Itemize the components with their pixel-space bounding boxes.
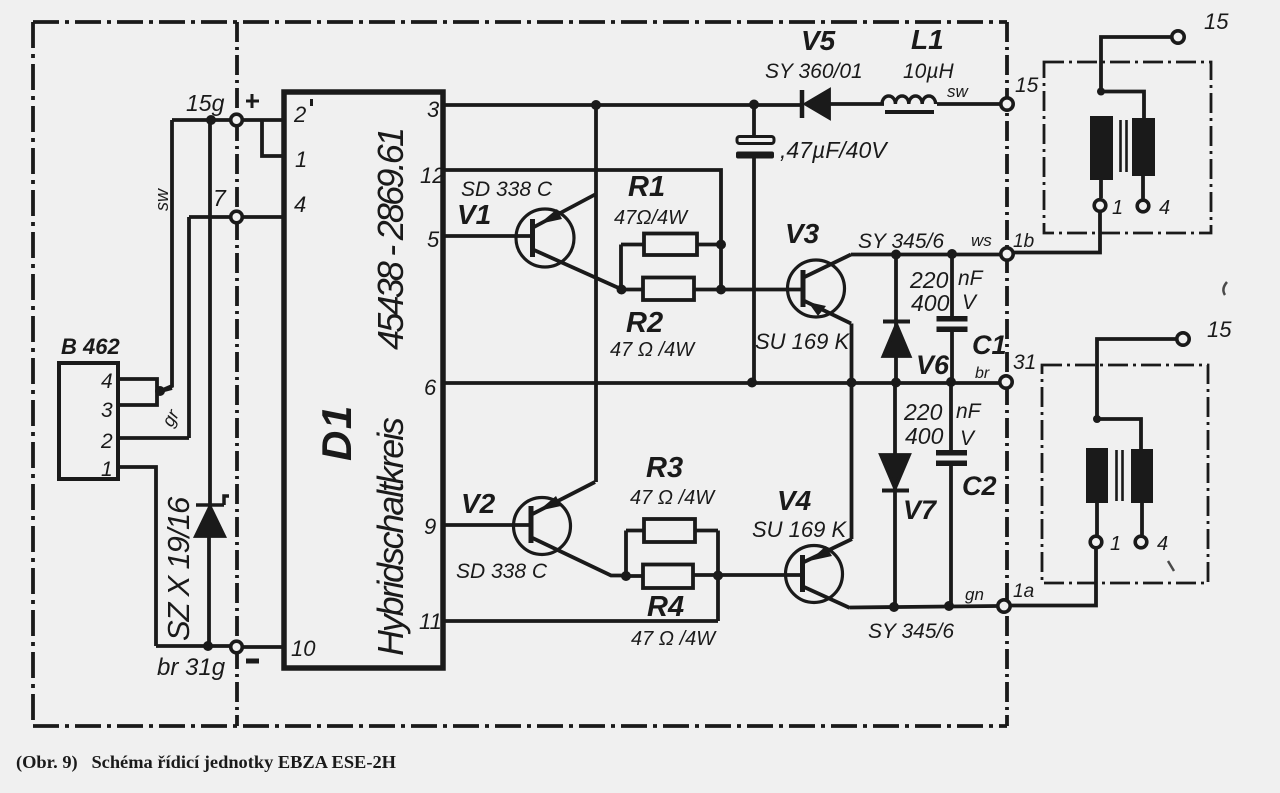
label C2 value nF (956, 400, 982, 423)
diode V7 lead (893, 383, 897, 607)
junction sw line (206, 115, 216, 125)
svg-text:R1: R1 (628, 171, 665, 203)
svg-text:45438 - 2869.61: 45438 - 2869.61 (370, 130, 411, 350)
junction V7 bottom (889, 602, 899, 612)
junction V6 bottom (891, 378, 901, 388)
lower coil primary lead down (1095, 503, 1099, 535)
label 15 upper right (1204, 9, 1229, 34)
lower coil pin 1 terminal (1090, 536, 1102, 548)
label R3 value 47ohm/4W (630, 487, 716, 509)
upper coil terminal 15 (1172, 31, 1184, 43)
svg-text:SY 360/01: SY 360/01 (765, 60, 863, 83)
label sw rotated (152, 188, 172, 211)
upper coil core lines (1121, 120, 1127, 172)
label V6 (916, 350, 950, 380)
label C1 value nF (958, 267, 984, 290)
svg-text:SZ X 19/16: SZ X 19/16 (161, 496, 196, 641)
wire sw vertical (158, 120, 172, 392)
resistor R1 left lead (621, 243, 644, 247)
lower coil secondary feed (1097, 419, 1141, 450)
svg-text:C2: C2 (962, 471, 997, 501)
svg-text:4: 4 (101, 370, 113, 393)
svg-text:R2: R2 (626, 307, 663, 339)
B462 pin 2 label (100, 430, 113, 453)
junction tie (155, 386, 165, 396)
label gr rotated (158, 405, 184, 429)
resistor R4 body (643, 565, 693, 589)
capacitor 47uF bottom lead (752, 158, 756, 383)
label gn (965, 585, 984, 604)
svg-text:V7: V7 (903, 495, 938, 525)
label R4 value 47ohm/4W (631, 628, 717, 650)
B462 pin 3 label (101, 399, 113, 422)
capacitor C1 top lead (950, 254, 954, 317)
svg-text:400: 400 (905, 423, 944, 449)
connector B462 body (59, 363, 118, 479)
junction R1 right (716, 240, 726, 250)
label V3 (785, 218, 820, 249)
svg-text:4: 4 (1159, 197, 1170, 219)
label sw at node 15 (947, 82, 970, 101)
lower ignition coil dashed box (1042, 365, 1208, 583)
junction collector line (591, 100, 601, 110)
wire B462 pin 2 (118, 436, 189, 440)
transistor V3 emitter arrow (808, 302, 826, 316)
node 15 (1001, 98, 1013, 110)
label V2 (461, 488, 496, 519)
diode V6 lead (894, 255, 898, 384)
emitter collector tie V3 V4 (850, 324, 854, 540)
svg-text:2: 2 (100, 430, 113, 453)
label SZ X 19/16 rotated (161, 496, 196, 641)
wire coil to node 15 (937, 102, 1000, 106)
label 47uF/40V (780, 137, 889, 163)
node 1a (998, 600, 1010, 612)
D1 pin 3 label (427, 97, 440, 122)
wire terminal 7 horizontal (189, 215, 283, 219)
label 1b (1013, 231, 1034, 252)
resistor R4 right lead and wire to V4 base (693, 573, 802, 577)
node 1b (1001, 248, 1013, 260)
capacitor 47uF top lead (752, 104, 756, 137)
node 7 (231, 211, 243, 223)
B462 pin 1 label (101, 458, 113, 481)
label C2 value V (960, 427, 976, 450)
upper ignition coil dashed box (1044, 62, 1211, 233)
svg-text:400: 400 (911, 290, 950, 316)
junction R4 right (713, 571, 723, 581)
diode V5 triangle (806, 91, 829, 118)
junction C2 bottom (944, 601, 954, 611)
svg-text:15: 15 (1204, 9, 1229, 34)
transistor V2 base bar (529, 506, 534, 543)
transistor V1 collector arrow (539, 209, 562, 224)
svg-text:br: br (975, 365, 990, 382)
outer dashed enclosure right border (1005, 22, 1009, 726)
inductor L1 coil (882, 96, 936, 104)
label 45438-2869.61 rotated (370, 130, 411, 350)
label pin 4 lower (1157, 533, 1168, 555)
svg-text:SY 345/6: SY 345/6 (858, 230, 944, 253)
label 31 (1013, 351, 1036, 374)
inductor L1 underline (885, 110, 934, 114)
label V4 (777, 485, 812, 516)
junction C1 top (947, 249, 957, 259)
D1 pin 11 label (419, 609, 442, 634)
diode V7 cathode bar (882, 489, 909, 493)
wire diode to coil (829, 102, 884, 106)
svg-text:6: 6 (424, 375, 437, 400)
transistor V4 emitter diagonal (804, 587, 850, 608)
transistor V4 collector arrow (809, 546, 832, 561)
svg-text:47 Ω /4W: 47 Ω /4W (610, 339, 696, 361)
wire pin 11 (443, 619, 718, 623)
label R3 (646, 452, 683, 484)
upper coil pin 1 terminal (1094, 200, 1106, 212)
upper coil feed wire (1101, 37, 1171, 91)
label R1 (628, 171, 665, 203)
transistor V4 collector diagonal (804, 539, 852, 562)
resistor R4 left lead (626, 574, 643, 578)
upper coil primary lead down (1099, 180, 1103, 198)
minus polarity mark (246, 659, 259, 664)
svg-text:nF: nF (956, 400, 982, 423)
transistor V1 collector diagonal (534, 194, 596, 227)
svg-text:15: 15 (1015, 74, 1039, 97)
transistor V1 base bar (530, 219, 535, 257)
label ws (971, 231, 992, 250)
svg-text:4: 4 (1157, 533, 1168, 555)
node 31g (231, 641, 243, 653)
wire pin 9 to V2 base (443, 523, 530, 527)
svg-text:nF: nF (958, 267, 984, 290)
svg-text:4: 4 (294, 192, 306, 217)
upper coil secondary feed (1101, 92, 1144, 119)
wire step to D1 pin 1 (262, 120, 283, 156)
lower coil secondary lead down (1140, 503, 1144, 535)
R3 R4 right connector to pin 11 (716, 531, 720, 622)
svg-text:V6: V6 (916, 350, 950, 380)
label R2 value 47ohm/4W (610, 339, 696, 361)
svg-text:15: 15 (1207, 317, 1232, 342)
svg-text:47Ω/4W: 47Ω/4W (614, 207, 689, 229)
wire pin1 to node 1b (1014, 212, 1100, 253)
capacitor C2 bottom lead (949, 466, 953, 606)
label br (975, 365, 990, 382)
svg-text:9: 9 (424, 514, 436, 539)
outer dashed enclosure left border (31, 22, 35, 726)
label SU 169 K for V3 (755, 329, 850, 354)
label pin 4 upper (1159, 197, 1170, 219)
caption Obr. 9 (16, 752, 396, 773)
svg-text:3: 3 (101, 399, 113, 422)
node 31 (1000, 376, 1012, 388)
transistor V3 base bar (801, 270, 806, 307)
wire ws rail SY345/6 (851, 253, 1000, 257)
svg-text:2: 2 (293, 102, 306, 127)
svg-text:1: 1 (1112, 197, 1123, 219)
svg-text:220: 220 (903, 399, 943, 425)
svg-text:1b: 1b (1013, 231, 1034, 252)
label 15 lower right (1207, 317, 1232, 342)
zener diode SZ X 19/16 cathode bar (196, 496, 229, 505)
svg-text:(Obr. 9) Schéma řídicí jedno: (Obr. 9) Schéma řídicí jednotky EBZA ESE… (16, 752, 396, 773)
wire tie to sw line (157, 388, 172, 392)
transistor V1 emitter diagonal (534, 250, 622, 290)
lower coil feed wire (1097, 339, 1176, 419)
junction R2 right (716, 285, 726, 295)
svg-text:V4: V4 (777, 485, 812, 516)
junction V6 top (891, 250, 901, 260)
svg-text:1a: 1a (1013, 581, 1034, 602)
stray scan mark upper right (1223, 282, 1227, 295)
label B 462 (61, 334, 120, 359)
diode V6 cathode bar (883, 320, 910, 324)
lower coil pin 4 terminal (1135, 536, 1147, 548)
label C1 value V (962, 291, 978, 314)
svg-text:15g: 15g (186, 90, 225, 116)
svg-text:SU 169 K: SU 169 K (752, 517, 847, 542)
transistor V2 collector arrow (538, 496, 561, 511)
label D1 rotated (313, 404, 360, 461)
label pin 1 lower (1110, 533, 1121, 555)
label R2 (626, 307, 663, 339)
svg-text:10µH: 10µH (903, 60, 954, 83)
svg-text:sw: sw (152, 188, 172, 211)
lower coil junction (1093, 415, 1101, 423)
outer dashed enclosure bottom border (33, 724, 1007, 728)
transistor V4 base bar (800, 555, 805, 592)
label C2 value 400 (905, 423, 944, 449)
svg-text:10: 10 (291, 636, 316, 661)
transistor V3 circle (788, 260, 845, 317)
svg-text:V3: V3 (785, 218, 820, 249)
wire pin 3 rail (443, 103, 801, 107)
svg-text:47 Ω /4W: 47 Ω /4W (630, 487, 716, 509)
D1 pin 1 label (295, 147, 307, 172)
transistor V3 collector diagonal (805, 255, 852, 278)
stray scan mark lower right (1168, 561, 1174, 571)
svg-text:11: 11 (419, 609, 442, 634)
label SU 169 K for V4 (752, 517, 847, 542)
svg-text:,47µF/40V: ,47µF/40V (780, 137, 889, 163)
resistor R3 body (644, 519, 695, 542)
svg-text:31: 31 (1013, 351, 1036, 374)
bottom wire br 31g (156, 646, 283, 647)
D1 pin 4 label (294, 192, 306, 217)
wire pin 5 to V1 base (443, 234, 531, 238)
junction cap47 bottom (747, 378, 757, 388)
svg-text:SD 338 C: SD 338 C (456, 560, 548, 583)
transistor V1 circle (516, 209, 574, 267)
svg-text:br 31g: br 31g (157, 654, 226, 681)
label SY 360/01 (765, 60, 863, 83)
wire zener branch vertical lower (207, 536, 211, 646)
svg-text:SU 169 K: SU 169 K (755, 329, 850, 354)
label R1 value 47ohm/4W (614, 207, 689, 229)
junction tie V3V4 (847, 378, 857, 388)
capacitor C2 plates (936, 450, 967, 466)
label C1 (972, 330, 1007, 360)
svg-text:R3: R3 (646, 452, 683, 484)
label R4 (647, 591, 684, 623)
svg-text:12: 12 (420, 163, 444, 188)
R1 R2 left connector (619, 245, 623, 291)
lower coil secondary winding (1131, 449, 1153, 503)
label pin 1 upper (1112, 197, 1123, 219)
label SD 338 C for V2 (456, 560, 548, 583)
svg-text:V2: V2 (461, 488, 496, 519)
label Hybridschaltkreis rotated (370, 417, 411, 656)
svg-text:3: 3 (427, 97, 440, 122)
svg-text:1: 1 (101, 458, 113, 481)
label 10uH (903, 60, 954, 83)
transistor V2 emitter diagonal (533, 538, 627, 576)
D1 pin 6 label (424, 375, 437, 400)
label SD 338 C for V1 (461, 178, 553, 201)
D1 pin 10 label (291, 636, 316, 661)
svg-text:L1: L1 (911, 24, 944, 55)
resistor R1 right lead (697, 243, 721, 247)
upper coil secondary lead down (1141, 176, 1145, 199)
lower coil primary winding (1086, 448, 1108, 503)
svg-text:D1: D1 (313, 404, 360, 461)
svg-text:V1: V1 (457, 199, 491, 230)
svg-text:Hybridschaltkreis: Hybridschaltkreis (370, 417, 411, 656)
wire B462 pin 1 down to bottom wire (118, 467, 156, 646)
zener diode SZ X 19/16 triangle (196, 507, 224, 536)
node 15g (231, 114, 243, 126)
junction emitter R2 left (617, 285, 627, 295)
label br 31g (157, 654, 226, 681)
transistor V3 emitter diagonal (805, 301, 852, 324)
svg-text:sw: sw (947, 82, 970, 101)
svg-text:ws: ws (971, 231, 992, 250)
svg-text:V: V (962, 291, 978, 314)
D1 pin 12 label (420, 163, 444, 188)
label V5 (801, 25, 836, 56)
svg-text:SD 338 C: SD 338 C (461, 178, 553, 201)
label SY 345/6 upper (858, 230, 944, 253)
diode V5 cathode bar (800, 90, 805, 118)
resistor R2 body (643, 278, 694, 301)
label L1 (911, 24, 944, 55)
capacitor C1 plates (937, 316, 968, 332)
junction emitter R4 left (621, 571, 631, 581)
wire B462 pins 4-3 tie (118, 379, 157, 405)
wire zener branch vertical upper (208, 120, 212, 504)
svg-text:1: 1 (1110, 533, 1121, 555)
transistor V2 collector diagonal (533, 482, 596, 514)
wire node 15g to D1 pin 2 (243, 118, 283, 122)
upper coil secondary winding (1132, 118, 1155, 176)
wire gn rail SY345/6 (850, 606, 997, 608)
lower coil terminal 15 (1177, 333, 1189, 345)
D1 pin 2 label (293, 99, 313, 127)
label 15g (186, 90, 225, 116)
D1 pin 5 label (427, 227, 440, 252)
lower coil core lines (1117, 450, 1123, 501)
collector tie line V1 V2 (594, 105, 598, 482)
svg-text:SY 345/6: SY 345/6 (868, 620, 954, 643)
label V1 (457, 199, 491, 230)
svg-text:7: 7 (213, 185, 227, 211)
capacitor C1 bottom lead (950, 332, 954, 382)
svg-text:47 Ω /4W: 47 Ω /4W (631, 628, 717, 650)
wire gr vertical to B462 pin 2 (187, 217, 191, 438)
resistor R1 body (644, 234, 697, 256)
B462 pin 4 label (101, 370, 113, 393)
label 1a (1013, 581, 1034, 602)
svg-text:gn: gn (965, 585, 984, 604)
resistor R2 right lead and wire to V3 base (694, 288, 802, 292)
svg-text:5: 5 (427, 227, 440, 252)
label 7 (213, 185, 227, 211)
D1 pin 9 label (424, 514, 436, 539)
wire pin 12 (443, 170, 721, 290)
resistor R3 right lead (695, 529, 718, 533)
label C2 value 220 (903, 399, 943, 425)
label C1 value 220 (909, 267, 949, 293)
svg-text:V: V (960, 427, 976, 450)
upper coil junction (1097, 88, 1105, 96)
center dash-dot boundary line (235, 22, 239, 726)
label 15 (1015, 74, 1039, 97)
svg-text:C1: C1 (972, 330, 1007, 360)
diode V6 triangle (884, 325, 910, 356)
capacitor C2 top lead (949, 382, 953, 451)
svg-text:R4: R4 (647, 591, 684, 623)
transistor V4 circle (786, 546, 843, 603)
svg-text:V5: V5 (801, 25, 836, 56)
label C2 (962, 471, 997, 501)
diode V7 triangle (881, 455, 909, 488)
junction capacitor 47uF (749, 100, 759, 110)
outer dashed enclosure top border (33, 20, 1007, 24)
label V7 (903, 495, 938, 525)
svg-text:B 462: B 462 (61, 334, 120, 359)
R3 R4 left connector (624, 531, 628, 577)
wire pin 6 rail (443, 381, 999, 385)
label SY 345/6 lower (868, 620, 954, 643)
upper coil primary winding (1090, 116, 1113, 180)
transistor V2 circle (514, 498, 571, 555)
plus polarity mark (246, 94, 259, 108)
upper coil pin 4 terminal (1137, 200, 1149, 212)
wire pin1 to node 1a (1011, 549, 1096, 606)
junction zener to bottom wire (203, 641, 213, 651)
junction C1 bottom (946, 377, 956, 387)
svg-text:1: 1 (295, 147, 307, 172)
resistor R2 left lead (621, 288, 643, 292)
resistor R3 left lead (626, 529, 644, 533)
wire 15g horizontal (172, 118, 230, 122)
hybrid IC D1 body (284, 92, 443, 668)
label C1 value 400 (911, 290, 950, 316)
capacitor 47uF plates (736, 137, 774, 159)
